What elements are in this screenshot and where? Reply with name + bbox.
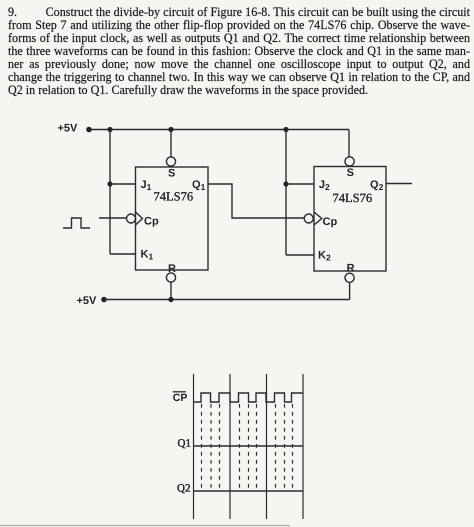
wire: rail drop to S pin of U2 — [348, 130, 350, 158]
clock edge marker (dashed) 6 — [256, 404, 258, 490]
label CP (overbar) — [173, 391, 186, 393]
svg-text:S: S — [347, 167, 354, 179]
pin circle S U2 — [345, 157, 354, 166]
junction: rail to J1/K1 feed — [107, 127, 112, 132]
Q2 waveform baseline — [194, 490, 304, 492]
wire: R U1 to bottom rail — [170, 282, 172, 299]
wire: +5V top rail — [89, 129, 349, 131]
clock edge marker (dashed) 3 — [219, 404, 221, 490]
edge-trigger triangle Cp U2 — [314, 212, 322, 225]
pin circle R U1 — [166, 273, 175, 282]
grid line 3 (waveform chart) — [266, 374, 268, 519]
wire: vertical feed to J2 and K2 — [285, 130, 287, 256]
wire: clock input to Cp U1 — [99, 217, 127, 219]
wire: K1 branch — [110, 253, 136, 255]
clock edge marker (dashed) 1 — [201, 404, 203, 490]
wire: drop to S pin of U1 — [170, 130, 172, 158]
wire: J1 branch — [110, 183, 136, 185]
flip-flop U1 body (74LS76 half) — [136, 167, 209, 270]
clock edge marker (dashed) 9 — [292, 404, 294, 490]
junction: bottom rail to R U1 — [168, 297, 173, 302]
junction: rail to J2/K2 feed — [283, 127, 288, 132]
clock edge marker (dashed) 5 — [248, 404, 250, 490]
wire: R U2 to bottom rail — [349, 282, 351, 299]
svg-text:74LS76: 74LS76 — [154, 190, 194, 204]
pin circle R U2 — [345, 273, 354, 282]
clock edge marker (dashed) 8 — [284, 404, 286, 490]
svg-text:+5V: +5V — [58, 123, 79, 135]
svg-text:J2: J2 — [319, 179, 330, 192]
svg-text:Cp: Cp — [323, 216, 338, 228]
clock edge marker (dashed) 7 — [275, 404, 277, 490]
flip-flop U2 body (74LS76 half) — [314, 167, 386, 272]
junction: rail to S1 — [168, 127, 173, 132]
grid line 4 (waveform chart) — [302, 374, 304, 519]
page artifact: faint bottom rule — [0, 525, 290, 527]
svg-text:K2: K2 — [318, 250, 331, 263]
wire: K2 branch — [286, 254, 314, 256]
clock edge marker (dashed) 4 — [239, 404, 241, 490]
inversion bubble Cp U1 — [127, 214, 136, 223]
CP clock waveform trace — [194, 393, 304, 402]
svg-text:Q1: Q1 — [178, 438, 191, 450]
clock pulse source symbol — [63, 218, 90, 228]
grid line 1 (waveform chart) — [193, 374, 195, 519]
svg-text:Q1: Q1 — [192, 179, 206, 192]
svg-text:Q2: Q2 — [177, 483, 190, 495]
inversion bubble Cp U2 — [304, 214, 313, 223]
pin circle S U1 — [166, 157, 175, 166]
Q1 waveform baseline — [194, 445, 304, 447]
svg-text:K1: K1 — [141, 249, 154, 262]
junction: J1 tap — [107, 181, 112, 186]
svg-text:74LS76: 74LS76 — [333, 191, 373, 205]
svg-text:J1: J1 — [141, 179, 152, 192]
clock edge marker (dashed) 2 — [210, 404, 212, 490]
wire: Q2 output stub — [386, 183, 412, 185]
svg-text:+5V: +5V — [77, 295, 98, 307]
junction: J2 tap — [283, 181, 288, 186]
wire: vertical feed to J1 and K1 — [109, 130, 111, 255]
svg-text:CP: CP — [173, 392, 188, 404]
node: +5V bottom terminal dot — [101, 297, 107, 303]
wire: Q1 to Cp U2 — [208, 184, 304, 218]
grid line 2 (waveform chart) — [229, 374, 231, 519]
svg-text:S: S — [168, 168, 175, 180]
wire: J2 branch — [286, 183, 314, 185]
node: +5V top terminal dot — [86, 127, 92, 133]
svg-text:Cp: Cp — [144, 216, 159, 228]
edge-trigger triangle Cp U1 — [136, 212, 143, 225]
wire: +5V bottom rail — [104, 299, 350, 301]
